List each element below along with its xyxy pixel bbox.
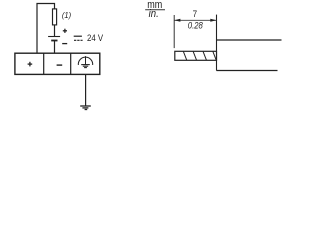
svg-text:(1): (1) <box>62 11 71 20</box>
svg-text:24 V: 24 V <box>87 33 104 43</box>
svg-text:in.: in. <box>149 8 159 20</box>
svg-text:7: 7 <box>193 9 198 19</box>
svg-text:0.28: 0.28 <box>188 21 204 31</box>
